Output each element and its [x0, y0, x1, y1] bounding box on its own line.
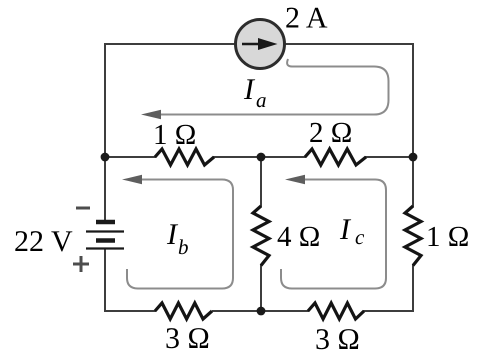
current source 2A	[236, 20, 285, 69]
battery V1 22V	[86, 222, 124, 249]
svg-text:2 Ω: 2 Ω	[309, 117, 352, 149]
wire middle horizontal center	[213, 156, 306, 158]
svg-text:a: a	[256, 88, 267, 112]
wire middle vertical upper	[260, 157, 262, 207]
wire left lower	[104, 248, 106, 312]
node A left middle	[101, 153, 110, 162]
battery plus sign	[73, 256, 89, 272]
mesh current loop Ib	[127, 180, 233, 289]
resistor R4 4ohm vertical	[253, 206, 269, 266]
battery minus sign	[76, 207, 90, 210]
svg-text:3 Ω: 3 Ω	[315, 323, 360, 356]
resistor R1 1ohm horizontal	[155, 149, 214, 165]
svg-text:I: I	[339, 213, 352, 246]
svg-text:22 V: 22 V	[14, 225, 73, 258]
svg-text:c: c	[355, 225, 365, 249]
wire bottom left	[104, 310, 156, 312]
svg-text:2 A: 2 A	[285, 2, 328, 35]
wire middle vertical lower	[260, 264, 262, 312]
svg-text:b: b	[178, 235, 189, 259]
mesh current loop Ia	[158, 59, 389, 115]
svg-text:3 Ω: 3 Ω	[165, 322, 210, 355]
arrowhead Ia	[141, 110, 161, 119]
wire middle horizontal right	[365, 156, 414, 158]
arrowhead Ic	[285, 175, 305, 184]
node B center middle	[257, 153, 266, 162]
resistor R2 2ohm horizontal	[305, 149, 366, 165]
wire bottom middle	[212, 310, 309, 312]
resistor R6 3ohm bottom left	[155, 303, 212, 319]
arrowhead Ib	[122, 175, 142, 184]
wire left upper	[104, 43, 106, 222]
resistor R7 3ohm bottom right	[308, 303, 364, 319]
node C right middle	[409, 153, 418, 162]
wire middle horizontal left	[104, 156, 156, 158]
svg-text:I: I	[243, 73, 256, 106]
node D center bottom	[257, 307, 266, 316]
svg-text:4 Ω: 4 Ω	[277, 221, 320, 253]
wire bottom right	[363, 310, 414, 312]
wire right lower	[412, 264, 414, 312]
wire right upper	[412, 43, 414, 207]
resistor R5 1ohm vertical right	[405, 206, 421, 266]
svg-text:1 Ω: 1 Ω	[153, 119, 196, 151]
mesh current loop Ic	[281, 180, 386, 289]
wire top	[105, 43, 413, 45]
svg-text:1 Ω: 1 Ω	[426, 221, 469, 253]
